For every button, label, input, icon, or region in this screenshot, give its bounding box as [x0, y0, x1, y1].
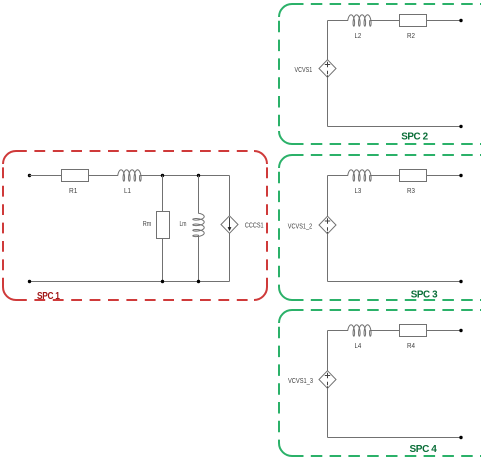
node junction bottom Rm — [161, 280, 164, 283]
svg-text:SPC 4: SPC 4 — [410, 444, 438, 455]
svg-text:SPC 2: SPC 2 — [401, 132, 428, 143]
node junction bottom Lm — [197, 280, 200, 283]
svg-text:R2: R2 — [407, 31, 415, 40]
wire Lm upper wire — [198, 176, 200, 212]
wire CCCS1 upper wire — [229, 176, 231, 216]
wire SPC4 left vertical upper — [327, 331, 329, 371]
resistor R1 — [62, 170, 89, 182]
inductor L2 — [346, 15, 372, 26]
node junction top Rm — [161, 174, 164, 177]
wire SPC2 left vertical lower — [327, 77, 329, 126]
svg-text:VCVS1_2: VCVS1_2 — [288, 222, 312, 231]
VCVS1 minus mark — [327, 71, 329, 77]
inductor Lm — [193, 212, 204, 238]
wire SPC4 top wire right — [427, 330, 462, 332]
node SPC1 left bottom terminal — [28, 280, 31, 283]
inductor L1 — [116, 170, 142, 181]
resistor R2 — [400, 15, 427, 27]
svg-text:CCCS1: CCCS1 — [245, 220, 264, 229]
VCVS1 plus sign — [325, 62, 330, 67]
wire SPC4 left vertical lower — [327, 388, 329, 437]
svg-text:VCVS1: VCVS1 — [295, 65, 313, 74]
inductor L4 — [346, 325, 372, 336]
VCVS1_3 minus mark — [327, 382, 329, 388]
resistor R3 — [400, 170, 427, 182]
subcircuit box SPC 2 — [279, 4, 481, 144]
subcircuit box SPC 1 — [3, 151, 267, 300]
wire SPC2 top wire right — [427, 20, 462, 22]
CCCS1 arrow — [229, 217, 231, 228]
wire SPC3 top wire right — [427, 175, 462, 177]
svg-text:L3: L3 — [355, 186, 362, 195]
wire SPC4 top wire left — [328, 330, 347, 332]
wire SPC2 bottom wire — [328, 126, 462, 128]
wire Rm lower wire — [162, 239, 164, 282]
wire SPC3 bottom wire — [328, 281, 462, 283]
resistor Rm — [157, 212, 170, 239]
resistor R4 — [400, 325, 427, 337]
wire SPC4 top wire middle — [372, 330, 400, 332]
wire Lm lower wire — [198, 237, 200, 282]
node junction top Lm — [197, 174, 200, 177]
controlled voltage source VCVS1 (diamond) — [319, 60, 336, 78]
node SPC4 bottom terminal — [459, 436, 462, 439]
controlled voltage source VCVS1_2 (diamond) — [319, 216, 336, 234]
wire SPC3 left vertical upper — [327, 176, 329, 217]
wire SPC3 left vertical lower — [327, 234, 329, 282]
wire SPC1 top wire a — [30, 175, 62, 177]
svg-text:R4: R4 — [407, 341, 415, 350]
node SPC3 top terminal — [459, 174, 462, 177]
node SPC3 bottom terminal — [459, 280, 462, 283]
wire SPC1 top wire b — [89, 175, 117, 177]
controlled voltage source VCVS1_3 (diamond) — [319, 371, 336, 389]
controlled current source CCCS1 (diamond) — [221, 216, 238, 234]
node SPC1 left top terminal — [28, 174, 31, 177]
svg-text:L2: L2 — [355, 31, 362, 40]
svg-text:L1: L1 — [124, 186, 131, 195]
wire SPC4 bottom wire — [328, 437, 462, 439]
VCVS1_2 minus mark — [327, 227, 329, 233]
svg-text:Lm: Lm — [180, 219, 187, 228]
wire SPC1 top wire c — [142, 175, 230, 177]
inductor L3 — [346, 170, 372, 181]
node SPC2 bottom terminal — [459, 125, 462, 128]
wire SPC1 bottom wire — [30, 281, 230, 283]
svg-text:R1: R1 — [69, 186, 77, 195]
node SPC2 top terminal — [459, 19, 462, 22]
wire SPC2 left vertical upper — [327, 21, 329, 60]
svg-text:R3: R3 — [407, 186, 415, 195]
svg-text:SPC 3: SPC 3 — [411, 290, 438, 301]
wire SPC3 top wire middle — [372, 175, 400, 177]
subcircuit box SPC 3 — [279, 155, 481, 300]
svg-text:L4: L4 — [355, 341, 362, 350]
VCVS1_3 plus sign — [325, 373, 330, 378]
wire SPC3 top wire left — [328, 175, 347, 177]
wire CCCS1 lower wire — [229, 233, 231, 281]
VCVS1_2 plus sign — [325, 218, 330, 223]
wire SPC2 top wire middle — [372, 20, 400, 22]
wire Rm upper wire — [162, 176, 164, 212]
svg-text:SPC 1: SPC 1 — [37, 291, 60, 302]
svg-text:VCVS1_3: VCVS1_3 — [288, 376, 313, 385]
wire SPC2 top wire left — [328, 20, 347, 22]
subcircuit box SPC 4 — [279, 310, 481, 456]
svg-text:Rm: Rm — [143, 219, 152, 228]
node SPC4 top terminal — [459, 329, 462, 332]
